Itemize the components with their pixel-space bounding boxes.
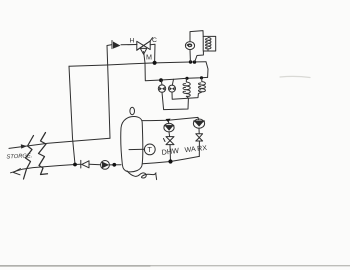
wire: stem to right small pump [172, 79, 173, 85]
temperature sensor line into tank [129, 148, 144, 150]
small pump P1 (circle with bowtie) [158, 85, 165, 92]
check valve (bottom pipe) [81, 160, 89, 168]
node (junction before tank) [112, 163, 116, 167]
node (left coil top) [185, 77, 188, 80]
wire: pump to tank inlet [110, 164, 122, 166]
svg-text:DHW: DHW [161, 146, 180, 157]
svg-text:H: H [130, 38, 135, 45]
node (left pump feed on line B) [159, 78, 163, 82]
node (right coil top) [200, 76, 203, 79]
wire: riser from top pipe to check valve [107, 45, 112, 139]
pipe break zigzag (right) [39, 133, 48, 175]
wire: mixing valve M port down and line B to right [144, 52, 208, 81]
wire: top link between circulator and radiator box [190, 31, 203, 42]
svg-text:C: C [152, 37, 157, 44]
storage tank [121, 116, 143, 171]
wire: storage top pipe [9, 138, 110, 148]
mixing valve (H/C/M three-way) [137, 38, 153, 55]
wire: circulator circle bottom stem [189, 50, 191, 62]
wire: DHW valve down to manifold [169, 145, 172, 162]
DHW pump (circle with down triangle) [164, 123, 174, 132]
wire: WA valve down to manifold corner [198, 141, 200, 156]
node (manifold DHW junction) [168, 159, 172, 163]
wire: WA pump to valve [198, 128, 200, 133]
wire: tank top pipe to branches [142, 117, 199, 120]
svg-text:M: M [146, 53, 152, 62]
WA RX valve [196, 134, 203, 141]
wire: bottom pipe after check valve into pump [90, 163, 101, 165]
svg-text:WA RX: WA RX [184, 145, 207, 154]
pump (bottom pipe, circle with right triangle) [101, 161, 110, 170]
wire: bottom manifold from tank [143, 156, 200, 163]
temperature sensor T [144, 144, 155, 155]
small pump P2 (circle with bowtie) [169, 85, 176, 92]
pipe break zigzag (left) [24, 136, 34, 180]
radiator box (top right) [203, 36, 216, 51]
check valve (top, near H line) [112, 41, 121, 49]
scan artifact: faint smudge right [280, 76, 310, 77]
wire: left long drop from line A to bottom pipe [69, 66, 75, 164]
wire: right pump bottom loop to right coil bottom [172, 92, 202, 99]
air vent on tank top [130, 107, 135, 114]
node (mixing valve output on line A) [153, 61, 157, 65]
wire: line A right corner down [206, 62, 208, 78]
node (DHW takeoff) [166, 119, 171, 123]
wire: radiator box bottom stem [195, 51, 204, 62]
wire: mixing valve right port down to node [150, 44, 155, 62]
radiator coil inside box [205, 38, 211, 51]
arrow (flow toward storage) on bottom pipe [13, 169, 20, 175]
wire: storage bottom pipe [11, 164, 82, 173]
right coil (heat exchanger spring) [199, 78, 206, 92]
wire: stem to left small pump [160, 80, 163, 85]
svg-text:T: T [147, 145, 152, 154]
wire: left pump bottom loop to left coil bottom [162, 92, 188, 109]
WA RX pump (circle with down triangle) [193, 119, 204, 128]
left coil (heat exchanger spring) [183, 79, 190, 97]
node (top right pair on line A, box side) [193, 60, 196, 63]
drain squiggle below tank [127, 171, 157, 180]
scan artifact: bottom edge line [0, 265, 350, 267]
wire: DHW pump to valve [168, 132, 171, 137]
wire: main line A [69, 62, 206, 66]
node (top right pair on line A, pump side) [189, 60, 192, 63]
DHW valve [164, 137, 175, 145]
wire: check valve to mixing valve, label H [121, 44, 137, 46]
node (junction bottom pipe left) [73, 163, 77, 167]
wire: DHW stem to pump [167, 121, 170, 124]
arrow (flow toward system) on top pipe [21, 144, 27, 148]
circulator pump (top right circle) [185, 42, 194, 50]
svg-text:STORGE.: STORGE. [6, 153, 32, 160]
